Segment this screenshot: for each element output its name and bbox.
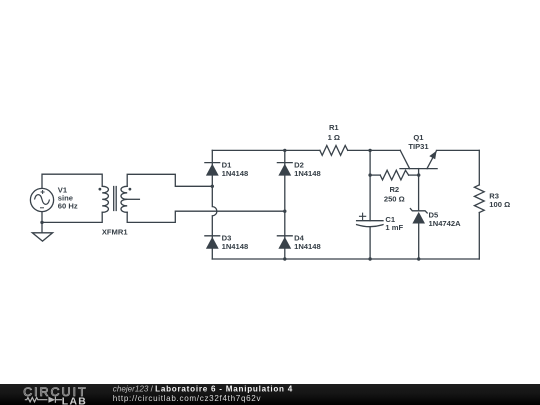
svg-text:1N4148: 1N4148 [222, 169, 249, 178]
svg-text:R1: R1 [329, 123, 339, 132]
svg-text:R3: R3 [489, 191, 499, 200]
svg-text:250 Ω: 250 Ω [384, 194, 405, 203]
svg-text:60 Hz: 60 Hz [58, 202, 78, 211]
svg-text:1N4148: 1N4148 [294, 169, 321, 178]
svg-text:LAB: LAB [62, 397, 87, 405]
svg-text:1 mF: 1 mF [385, 223, 403, 232]
svg-text:XFMR1: XFMR1 [102, 227, 129, 236]
svg-text:Q1: Q1 [413, 133, 424, 142]
svg-text:1N4148: 1N4148 [294, 242, 321, 251]
svg-text:R2: R2 [389, 185, 399, 194]
svg-text:1N4148: 1N4148 [222, 242, 249, 251]
svg-text:chejer123 / Laboratoire 6 - Ma: chejer123 / Laboratoire 6 - Manipulation… [113, 385, 293, 394]
svg-text:TIP31: TIP31 [408, 142, 429, 151]
svg-text:1N4742A: 1N4742A [429, 219, 462, 228]
svg-text:1 Ω: 1 Ω [328, 133, 340, 142]
svg-text:http://circuitlab.com/cz32f4th: http://circuitlab.com/cz32f4th7q62v [113, 394, 262, 403]
svg-text:100 Ω: 100 Ω [489, 200, 510, 209]
